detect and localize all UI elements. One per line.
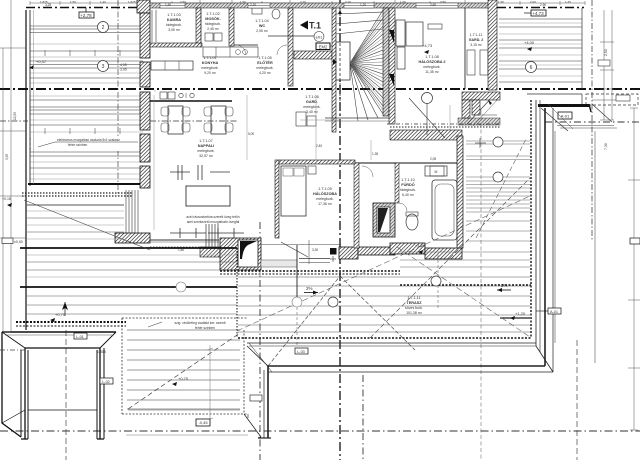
- west glazing: [126, 190, 138, 236]
- svg-text:7,30: 7,30: [604, 143, 608, 150]
- kitchen island front: [150, 100, 232, 102]
- terrace long diagonal B: [397, 247, 530, 337]
- svg-text:2,40: 2,40: [316, 144, 322, 148]
- svg-text:1.T.1.04: 1.T.1.04: [255, 19, 269, 23]
- right small boxes: [598, 60, 610, 66]
- svg-text:+1,20: +1,20: [515, 311, 526, 316]
- terrace deck lines bottom strip: [238, 277, 530, 332]
- dash stub left: [0, 349, 25, 351]
- stair bottom wall lines: [325, 117, 389, 119]
- svg-text:1,50: 1,50: [498, 0, 504, 4]
- wall under kamra: [150, 43, 202, 47]
- south glass wall lines: [150, 239, 219, 241]
- svg-text:1,20: 1,20: [360, 3, 366, 7]
- west dotted band bottom: [16, 321, 126, 323]
- svg-text:2,50: 2,50: [604, 49, 608, 56]
- svg-text:GARD. 2: GARD. 2: [469, 38, 484, 42]
- axis line horizontal top-left: [26, 7, 140, 9]
- svg-text:A-01: A-01: [550, 310, 558, 314]
- svg-text:3,30: 3,30: [312, 248, 318, 252]
- shower: [373, 203, 395, 237]
- svg-text:+2,78: +2,78: [80, 13, 92, 18]
- leader line to bubble: [268, 35, 314, 37]
- svg-text:1.T.1.02: 1.T.1.02: [206, 12, 220, 16]
- west deck lines: [20, 205, 237, 314]
- south wall segment 4: [358, 247, 395, 255]
- step band top: [247, 342, 536, 344]
- wall stub left of corner: [200, 247, 220, 257]
- kitchen counter: [200, 8, 202, 45]
- label box +2,78: [79, 12, 94, 18]
- frame1 inner horizontal: [28, 409, 97, 411]
- closet room right: [464, 8, 466, 89]
- label box -0,45: [196, 419, 210, 426]
- wardrobe: [396, 20, 405, 46]
- svg-text:KAMRA: KAMRA: [167, 18, 181, 22]
- svg-text:WC: WC: [259, 24, 266, 28]
- axis bubble small: [314, 32, 324, 42]
- svg-text:101,38 m²: 101,38 m²: [406, 311, 423, 315]
- axis bubble 2: [98, 22, 109, 33]
- bathtub: [432, 180, 457, 240]
- right band border: [581, 8, 583, 89]
- svg-text:melegburk.: melegburk.: [197, 149, 214, 153]
- axis line vertical main x=340: [339, 0, 341, 460]
- svg-text:1.T.1.05: 1.T.1.05: [258, 56, 272, 60]
- svg-text:2,20: 2,20: [250, 3, 256, 7]
- svg-text:ELŐTÉR: ELŐTÉR: [257, 60, 273, 65]
- right wall of roof band hatched: [137, 0, 150, 13]
- stair right wall: [383, 8, 389, 116]
- kitchen island: [151, 61, 193, 70]
- svg-text:HÁLÓSZOBA: HÁLÓSZOBA: [313, 191, 337, 196]
- dimension line top: [30, 2, 585, 4]
- svg-text:+0,37: +0,37: [36, 59, 47, 64]
- svg-text:elektromos mozgatású zsaluzia: elektromos mozgatású zsaluzia 5x1 szakas…: [57, 138, 120, 142]
- leg label box: [250, 395, 262, 401]
- svg-text:4,05: 4,05: [120, 63, 127, 67]
- roof bottom edge thick: [28, 183, 145, 185]
- svg-text:HÁLÓSZOBA 2: HÁLÓSZOBA 2: [418, 59, 445, 64]
- left wall double line: [25, 10, 27, 330]
- svg-text:3,40 m²: 3,40 m²: [306, 110, 319, 114]
- svg-text:11,35 m²: 11,35 m²: [425, 70, 439, 74]
- south wall of bedroom2: [390, 130, 462, 140]
- roof hatch lines right band: [499, 19, 582, 82]
- svg-text:1.T.1.03: 1.T.1.03: [167, 13, 181, 17]
- south wall segment 3: [339, 247, 358, 259]
- svg-text:1,50: 1,50: [165, 3, 171, 7]
- svg-text:1.T.1.06: 1.T.1.06: [305, 95, 319, 99]
- svg-text:+0,15: +0,15: [2, 197, 11, 201]
- label box L-01: [74, 333, 87, 339]
- garderob wardrobe: [296, 112, 306, 126]
- east wall upper: [462, 92, 500, 100]
- label box A-01 top: [558, 112, 572, 119]
- frame1 second outer line: [5, 334, 113, 336]
- wall face line: [33, 10, 35, 184]
- bedroom2 axis bubble: [422, 93, 433, 104]
- bed 1: [281, 166, 306, 216]
- svg-text:6: 6: [530, 65, 533, 71]
- terrace long diagonal A: [237, 196, 530, 331]
- svg-text:fehér színben: fehér színben: [68, 143, 88, 147]
- svg-text:NAPPALI: NAPPALI: [198, 144, 214, 148]
- svg-text:+4,00: +4,00: [524, 40, 535, 45]
- svg-text:e01: e01: [316, 35, 323, 40]
- door arcs: [236, 45, 246, 55]
- svg-text:FÜRDŐ: FÜRDŐ: [401, 182, 415, 187]
- svg-text:±0,00: ±0,00: [14, 240, 23, 244]
- svg-text:3,95: 3,95: [5, 154, 9, 160]
- window kamra: [160, 3, 185, 8]
- step band right verticals: [535, 100, 537, 346]
- closet M: [430, 166, 444, 176]
- svg-text:2,60: 2,60: [430, 3, 436, 7]
- roof tick row: [45, 50, 120, 134]
- svg-text:1,25: 1,25: [565, 0, 571, 4]
- stair walk dashed line: [339, 8, 341, 118]
- svg-text:L-02: L-02: [102, 380, 110, 384]
- window stairs: [344, 3, 374, 8]
- svg-text:1.T.1.10: 1.T.1.10: [401, 178, 415, 182]
- svg-text:2%: 2%: [306, 286, 313, 291]
- roof bottom dotted band: [22, 192, 133, 194]
- axis line vertical x=363: [362, 375, 364, 460]
- svg-text:L-01: L-01: [76, 335, 84, 339]
- stair landing box: [336, 42, 350, 80]
- svg-text:1,50: 1,50: [70, 0, 76, 4]
- west terrace east dotted boundary: [236, 248, 238, 338]
- svg-text:M: M: [435, 170, 438, 174]
- svg-text:2,90: 2,90: [540, 3, 546, 7]
- step mitre diagonals: [247, 346, 268, 366]
- right roof wall left: [488, 0, 497, 90]
- wc fixtures: [252, 8, 262, 14]
- terrace deck lines right column: [400, 141, 530, 267]
- svg-text:acél szerkezetű mozgatható üve: acél szerkezetű mozgatható üvegfal: [187, 220, 240, 224]
- svg-text:32,57 m²: 32,57 m²: [199, 154, 214, 158]
- frame1 feet: [21, 438, 104, 440]
- bedroom2 roof diagonal: [409, 98, 445, 138]
- svg-text:4,20 m²: 4,20 m²: [259, 71, 272, 75]
- dining table 1: [168, 106, 183, 134]
- deck region border dotted: [122, 317, 248, 319]
- svg-text:T.1: T.1: [309, 21, 321, 31]
- svg-text:3,25: 3,25: [45, 3, 51, 7]
- pen mark: [488, 100, 492, 105]
- door small: [399, 203, 407, 211]
- svg-text:9,20 m²: 9,20 m²: [204, 71, 217, 75]
- svg-text:1.T.1.07: 1.T.1.07: [199, 139, 213, 143]
- diagonal corner right: [541, 108, 568, 131]
- window wc: [248, 3, 270, 8]
- corridor west wall: [354, 163, 359, 248]
- svg-text:2: 2: [102, 25, 105, 31]
- NE corner roof diagonals: [467, 92, 497, 124]
- deck diagonal: [128, 333, 240, 409]
- terrace door drop lines: [296, 245, 298, 302]
- coffee table rect: [186, 186, 230, 206]
- terrace diagonals: [268, 276, 340, 366]
- svg-text:2,05: 2,05: [430, 157, 436, 161]
- kamra shelves: [151, 10, 153, 42]
- south wall face line: [261, 244, 341, 246]
- label box L-02: [100, 378, 113, 384]
- west deck diagonal: [24, 200, 150, 250]
- bathroom east wall: [457, 136, 463, 248]
- svg-text:1,40: 1,40: [100, 0, 106, 4]
- svg-text:+4,73: +4,73: [422, 43, 433, 48]
- door leaf black 2: [389, 74, 394, 86]
- corner block: [220, 238, 261, 270]
- svg-text:fehér színben: fehér színben: [195, 326, 215, 330]
- window in top wall: [420, 3, 455, 5]
- sliding panel stack: [206, 224, 218, 247]
- terrace overhang dotted band: [400, 284, 531, 286]
- svg-text:1.T.1.01: 1.T.1.01: [203, 56, 217, 60]
- svg-text:+1,20: +1,20: [415, 243, 426, 248]
- step band vertical legs: [263, 370, 265, 438]
- axis line horizontal y=119 right: [545, 121, 640, 123]
- label box right mid: [630, 238, 640, 244]
- door swing diagonal: [281, 242, 308, 257]
- wall x288: [288, 8, 293, 86]
- door leaf black 1: [389, 30, 394, 43]
- svg-text:+0,70: +0,70: [178, 376, 189, 381]
- dotted band below south wall: [220, 270, 400, 272]
- axis line vertical x=260: [259, 222, 261, 460]
- svg-text:MOSÓK.: MOSÓK.: [205, 16, 220, 21]
- left small box 1,10: [2, 238, 13, 244]
- glazing segment: [299, 258, 330, 260]
- door threshold: [261, 260, 297, 267]
- axis bubble right: [526, 62, 537, 73]
- +1,20 cross mark: [475, 142, 486, 144]
- parapet lines right: [527, 93, 582, 95]
- svg-text:melegburk.: melegburk.: [316, 197, 333, 201]
- washer dryer: [205, 33, 213, 41]
- right terrace verticals: [554, 131, 556, 343]
- label box at top: [428, 24, 442, 29]
- ramp horizontals: [557, 125, 614, 127]
- bedroom1 walls: [275, 160, 279, 238]
- svg-text:3,15 m²: 3,15 m²: [470, 43, 482, 47]
- svg-text:melegburk.: melegburk.: [201, 66, 218, 70]
- corner bracket glyph: [240, 241, 257, 259]
- svg-text:hidegburk.: hidegburk.: [400, 188, 416, 192]
- bedroom left wall: [389, 8, 395, 124]
- label box E1: [316, 43, 330, 50]
- frame1 inner: [25, 347, 100, 349]
- svg-text:2,00: 2,00: [530, 0, 536, 4]
- sliding door symbol: [170, 228, 244, 238]
- black column at south door: [330, 248, 337, 255]
- svg-text:1,35: 1,35: [372, 152, 378, 156]
- svg-text:melegburk.: melegburk.: [303, 105, 320, 109]
- label box +4,73: [531, 10, 546, 16]
- svg-text:+4,73: +4,73: [532, 11, 544, 16]
- stair left wall: [332, 8, 336, 132]
- axis bubble west: [176, 282, 186, 292]
- annotation gap in roof band: [31, 137, 140, 151]
- svg-text:melegburk.: melegburk.: [256, 66, 273, 70]
- svg-text:1,625: 1,625: [128, 0, 136, 4]
- toilet: [406, 214, 418, 230]
- axis bubble 3: [98, 61, 109, 72]
- svg-text:1,80: 1,80: [178, 248, 184, 252]
- terrace step line thick: [500, 317, 530, 319]
- axis line vertical x=577: [576, 340, 578, 460]
- svg-text:hidegburk.: hidegburk.: [166, 23, 182, 27]
- parapet thick band: [538, 104, 589, 107]
- deck bottom step: [244, 414, 261, 437]
- dash stub y121: [0, 120, 28, 122]
- washbasin cabinet: [425, 166, 447, 176]
- svg-text:1.T.1.08: 1.T.1.08: [425, 55, 439, 59]
- svg-text:1.T.1.09: 1.T.1.09: [318, 187, 332, 191]
- deck mid line: [128, 409, 240, 411]
- svg-text:GARD.: GARD.: [306, 100, 318, 104]
- north arrow symbol: [62, 302, 68, 310]
- svg-text:acél rácsostartóra szerelt üve: acél rácsostartóra szerelt üveg tetőn: [186, 215, 239, 219]
- svg-text:szig. védőréteg csatlakt ker.: szig. védőréteg csatlakt ker. szemlt: [174, 321, 225, 325]
- axis line horizontal y=431 bottom: [0, 430, 640, 432]
- svg-text:3: 3: [102, 64, 105, 70]
- kamra right wall: [196, 8, 201, 46]
- top exterior wall gray band: [150, 3, 490, 8]
- label box L-03: [295, 348, 308, 354]
- axis line vertical x=66: [65, 330, 67, 460]
- svg-text:hidegburk.: hidegburk.: [205, 22, 221, 26]
- terrace border dotted right: [530, 100, 532, 338]
- bed 2: [406, 22, 423, 46]
- svg-text:2%: 2%: [501, 283, 508, 288]
- roof hatch lines left band: [30, 26, 143, 168]
- window bedroom2: [416, 3, 458, 8]
- deck dim line vertical: [209, 345, 211, 424]
- bathroom north wall: [355, 162, 462, 164]
- svg-text:TERASZ: TERASZ: [406, 301, 422, 305]
- svg-text:1.T.1.11: 1.T.1.11: [407, 296, 420, 300]
- south wall of bedroom2 upper band: [458, 118, 500, 125]
- frame1 mitres: [2, 332, 25, 348]
- dashed rect top right: [586, 94, 638, 105]
- right corner ramp diagonal: [592, 104, 612, 122]
- axis line vertical x=592: [591, 0, 593, 240]
- small wall piece: [395, 163, 399, 203]
- axis line horizontal top-right: [497, 7, 584, 9]
- svg-text:-0,45: -0,45: [198, 420, 208, 425]
- corridor door arc: [362, 166, 373, 177]
- svg-text:1.T.1.11: 1.T.1.11: [470, 33, 483, 37]
- deck lines: [127, 330, 240, 409]
- wall x229: [229, 8, 234, 46]
- stair tread fan: [336, 10, 383, 121]
- svg-text:2,45 m²: 2,45 m²: [207, 27, 220, 31]
- nightstand: [308, 166, 316, 174]
- svg-text:6,40 m²: 6,40 m²: [402, 193, 415, 197]
- svg-text:12,55: 12,55: [13, 112, 17, 120]
- svg-text:KONYHA: KONYHA: [202, 61, 219, 65]
- axis line horizontal main y=89: [0, 88, 640, 90]
- left dim line: [10, 0, 12, 332]
- svg-text:5,00: 5,00: [248, 132, 254, 136]
- svg-text:3,05 m²: 3,05 m²: [168, 28, 181, 32]
- svg-text:L-03: L-03: [297, 350, 305, 354]
- svg-text:2,05 m²: 2,05 m²: [256, 29, 269, 33]
- svg-text:EM2: EM2: [319, 45, 328, 50]
- sofa table symbol: [170, 165, 230, 180]
- svg-text:köves burk.: köves burk.: [405, 306, 423, 310]
- window sill west corner: [115, 233, 150, 243]
- label box right +0,45: [548, 308, 561, 314]
- svg-text:3,95: 3,95: [120, 68, 127, 72]
- dining table 2: [211, 106, 226, 134]
- svg-text:17,36 m²: 17,36 m²: [318, 202, 333, 206]
- axis bubbles on terrace: [292, 297, 302, 307]
- axis line vertical x=118: [117, 0, 119, 196]
- svg-text:A-01: A-01: [561, 114, 570, 119]
- vestibule south wall: [294, 51, 332, 59]
- frame1 outer: [2, 331, 116, 333]
- T.1 marker: [300, 21, 308, 30]
- svg-text:melegburk.: melegburk.: [423, 65, 440, 69]
- svg-text:+0,70: +0,70: [55, 312, 66, 317]
